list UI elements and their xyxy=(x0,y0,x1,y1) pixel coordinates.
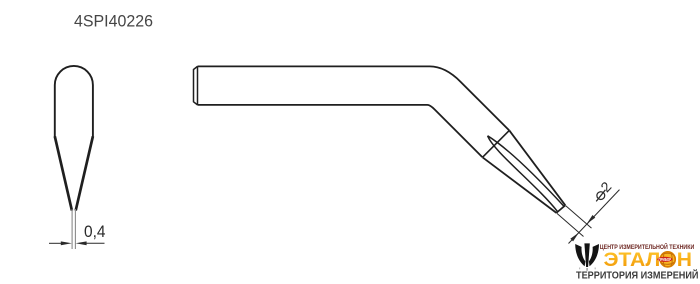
svg-text:ТЕРРИТОРИЯ ИЗМЕРЕНИЙ: ТЕРРИТОРИЯ ИЗМЕРЕНИЙ xyxy=(576,268,699,281)
dimension dia2: dimension line xyxy=(569,190,620,244)
dimension text dia 2 xyxy=(597,192,605,200)
side view: cone start crossbar xyxy=(483,130,510,157)
logo mark: stylized trident xyxy=(575,243,599,270)
front view: tip body outline xyxy=(55,66,93,137)
side view: shaft bottom outline with bend corner xyxy=(198,105,483,157)
dimension 0,4: right leader line xyxy=(86,242,105,244)
dimension 0,4: right arrowhead xyxy=(76,241,87,245)
dimension dia2: upper arrowhead xyxy=(587,215,596,224)
svg-text:0,4: 0,4 xyxy=(84,222,106,241)
side view: left end cap outer edge xyxy=(194,66,198,105)
dimension 0,4: left arrowhead xyxy=(61,241,72,245)
side view: shaft top outline with bend curve xyxy=(198,66,510,130)
front view: left taper edge xyxy=(55,136,72,210)
dimension 0,4: left leader line xyxy=(49,242,62,244)
side view: cone top edge xyxy=(509,130,565,205)
front view: right taper edge xyxy=(76,136,93,210)
dimension dia2: upper extension line xyxy=(566,206,592,229)
dimension dia2: lower extension line xyxy=(557,213,584,236)
dimension dia2: lower arrowhead xyxy=(570,233,579,242)
side view: chisel flat leaf xyxy=(488,136,564,212)
logo globe over letter O xyxy=(660,252,675,267)
side view: left end cap inner line xyxy=(197,66,199,105)
side view: tip end cap xyxy=(556,205,565,213)
front view: thin tip band right edge xyxy=(74,209,76,249)
svg-text:ЭТАЛОН: ЭТАЛОН xyxy=(604,250,693,271)
svg-text:ПРИБОР: ПРИБОР xyxy=(659,257,672,262)
front view: thin tip band left edge xyxy=(71,209,73,249)
side view: cone bottom edge xyxy=(483,157,557,213)
logo red banner PRIBOR xyxy=(657,257,672,262)
svg-text:4SPI40226: 4SPI40226 xyxy=(74,12,153,31)
